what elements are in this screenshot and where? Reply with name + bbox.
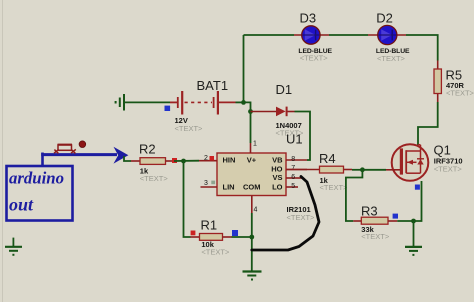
resistor R3 <box>353 217 397 224</box>
red marker square left of R1 <box>191 231 196 236</box>
blue marker square near battery <box>165 106 171 111</box>
svg-text:R2: R2 <box>139 142 156 157</box>
svg-text:<TEXT>: <TEXT> <box>175 124 204 133</box>
svg-text:<TEXT>: <TEXT> <box>377 54 406 63</box>
pin 7 stub (HO) <box>286 169 307 171</box>
wire: R5 to Q1 drain <box>418 102 438 145</box>
wire: junction down to ground <box>413 221 415 246</box>
drain-source right line <box>420 145 422 173</box>
wire: R1 to ground net <box>232 236 252 238</box>
wire: R2 to HIN junction <box>174 160 199 162</box>
red indicator dot <box>79 141 86 148</box>
diode D1 1N4007 <box>251 107 295 117</box>
wire: R4 to gate junction <box>352 169 362 171</box>
channel bar <box>405 150 407 173</box>
svg-text:8: 8 <box>291 156 295 163</box>
drain lead top <box>418 144 420 146</box>
wire: R3 to source corner <box>397 181 421 221</box>
svg-text:V+: V+ <box>247 156 257 165</box>
pin 8 stub (VB) <box>286 159 307 161</box>
wire: junction to Q1 gate <box>362 169 386 171</box>
svg-text:D2: D2 <box>376 11 393 26</box>
pin 1 stub (V+) <box>250 143 252 153</box>
svg-text:D3: D3 <box>300 11 317 26</box>
wire: junction down to R3 <box>346 170 363 221</box>
svg-text:<TEXT>: <TEXT> <box>446 89 474 98</box>
wire: D1 cathode to VB pin <box>295 112 311 161</box>
svg-text:HIN: HIN <box>223 156 236 165</box>
green marker square pin 3 <box>211 181 215 185</box>
svg-text:<TEXT>: <TEXT> <box>300 54 329 63</box>
wire: jog to D1 row <box>244 102 251 111</box>
svg-text:BAT1: BAT1 <box>197 78 229 93</box>
gate lead <box>386 169 400 171</box>
red marker square right of R2 <box>172 158 177 163</box>
svg-text:<TEXT>: <TEXT> <box>320 183 349 192</box>
wire: pin 4 to ground <box>251 213 253 271</box>
pin 3 stub (LIN) <box>201 186 218 188</box>
svg-text:R3: R3 <box>361 204 378 219</box>
resistor R1 <box>191 234 232 241</box>
transistor Q1 IRF3710 <box>386 144 428 181</box>
blue marker square under Q1 <box>415 185 420 190</box>
svg-text:<TEXT>: <TEXT> <box>361 232 390 241</box>
LED D3 <box>294 26 329 44</box>
resistor R2 <box>131 158 174 165</box>
ground (center, under U1) <box>243 272 262 280</box>
blue marker square right of R3 <box>393 214 398 219</box>
svg-text:arduino: arduino <box>9 169 64 188</box>
arduino out box <box>7 166 73 221</box>
blue marker square right of R1 <box>232 230 238 236</box>
resistor R5 <box>434 61 441 103</box>
svg-text:LIN: LIN <box>223 182 235 191</box>
svg-text:D1: D1 <box>276 82 293 97</box>
svg-text:4: 4 <box>254 207 258 214</box>
ground (below arduino box) <box>5 238 22 255</box>
pin 2 stub (HIN) <box>199 160 217 162</box>
svg-text:7: 7 <box>291 165 295 172</box>
ground (left, at battery negative) <box>116 94 124 111</box>
pin 4 stub (COM) <box>251 196 253 214</box>
node junction gate/R3 <box>360 167 365 172</box>
svg-text:2: 2 <box>204 155 208 162</box>
gate bar <box>400 148 403 174</box>
pin 5 stub (LO) <box>286 186 298 188</box>
svg-text:R1: R1 <box>201 218 218 233</box>
svg-text:<TEXT>: <TEXT> <box>140 174 169 183</box>
wire: D3 to D2 <box>329 34 368 36</box>
svg-text:VB: VB <box>272 156 283 165</box>
blue signal arrow from arduino box <box>41 153 117 167</box>
push button symbol above arrow <box>54 145 76 154</box>
wire: top rail vertical <box>243 35 245 102</box>
wire: top rail to D3 <box>244 34 295 36</box>
wire: left ground to battery <box>125 101 170 103</box>
ground (under Q1) <box>405 247 422 255</box>
node junction source/ground <box>411 219 416 224</box>
svg-text:6: 6 <box>291 174 295 181</box>
LED D2 <box>368 25 406 44</box>
svg-text:R4: R4 <box>319 151 336 166</box>
svg-text:out: out <box>9 195 34 215</box>
svg-text:HO: HO <box>271 164 282 173</box>
wire: arrow tip to R2 <box>124 156 131 161</box>
source stub <box>406 172 420 174</box>
svg-text:5: 5 <box>291 183 295 190</box>
red marker square pin 2 <box>210 156 215 160</box>
node junction D1/V+ <box>248 109 253 114</box>
svg-text:U1: U1 <box>286 132 303 147</box>
wire: D2 to top-right corner, down to R5 <box>406 35 438 61</box>
node junction R1/ground net <box>249 235 254 240</box>
svg-text:VS: VS <box>272 173 282 182</box>
svg-text:<TEXT>: <TEXT> <box>287 213 316 222</box>
drain stub <box>406 150 420 152</box>
svg-text:1: 1 <box>253 141 257 148</box>
svg-text:LO: LO <box>272 182 283 191</box>
node junction battery/top-rail <box>241 100 246 105</box>
svg-text:<TEXT>: <TEXT> <box>434 165 463 174</box>
svg-text:3: 3 <box>204 180 208 187</box>
node junction R2/HIN/R1 <box>181 159 186 164</box>
pin 6 stub (VS) <box>286 177 302 179</box>
svg-text:COM: COM <box>243 182 261 191</box>
svg-text:Q1: Q1 <box>434 143 451 158</box>
wire: V+ down to pin 1 <box>250 112 252 144</box>
wire: battery to junction <box>236 101 244 103</box>
wire: junction down to R1 <box>184 161 191 237</box>
op-amp driver U1 IR2101 body <box>217 153 286 196</box>
black jumper wire from VS pin to ground net <box>252 177 319 251</box>
body stub with arrow <box>406 161 416 163</box>
body diode <box>417 158 424 160</box>
battery BAT1 <box>170 91 236 115</box>
svg-text:<TEXT>: <TEXT> <box>201 248 230 257</box>
faint window edge line <box>2 0 4 302</box>
resistor R4 <box>286 166 352 173</box>
